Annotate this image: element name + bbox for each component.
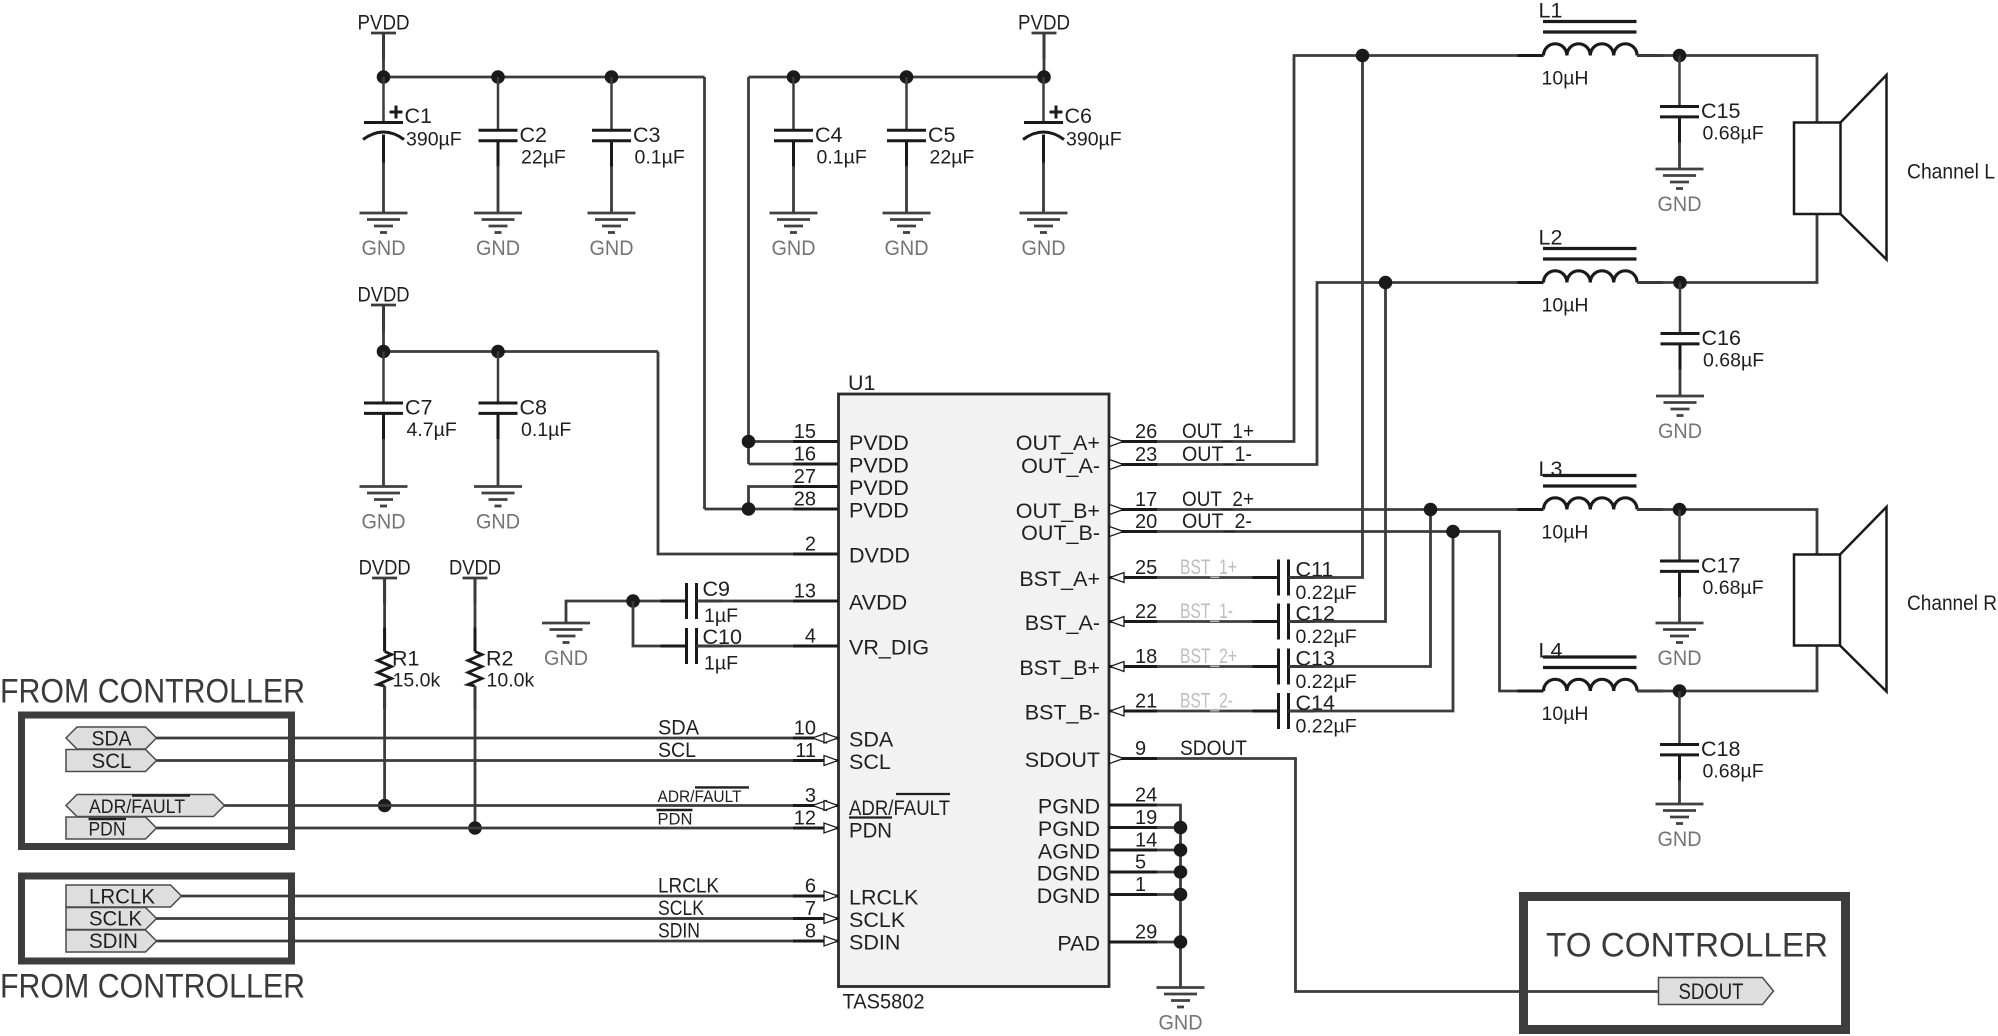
svg-text:1µF: 1µF [704,653,738,675]
svg-text:L4: L4 [1539,639,1563,663]
svg-text:C6: C6 [1065,104,1093,128]
arrow pin7 SCLK input [824,914,838,924]
svg-text:21: 21 [1135,691,1157,713]
wire node down to C10 [633,601,687,646]
wire PVDD bus (C4-C6) [749,76,1045,79]
svg-text:GND: GND [362,236,406,260]
pin 23 OUT_A- (right) [1109,463,1157,466]
ground C8 [474,485,522,488]
svg-text:GND: GND [476,510,520,534]
wire OUT_1+ from pin 26 [1157,56,1544,442]
svg-text:8: 8 [805,921,816,943]
node junction R2/PDN [468,821,482,835]
svg-text:OUT_1-: OUT_1- [1182,442,1252,466]
ground C15 [1656,168,1704,171]
wire OUT_2- from pin 20 [1157,532,1544,692]
svg-text:C1: C1 [405,104,432,128]
pin 11 SCL (left) [793,759,838,762]
arrow BST input pin [1110,573,1124,583]
arrow BST input pin [1110,706,1124,716]
inductor L3 10uH [1544,498,1638,510]
svg-text:BST_A-: BST_A- [1025,611,1100,635]
svg-text:23: 23 [1135,444,1157,466]
svg-text:0.68µF: 0.68µF [1703,123,1764,145]
wire BST_B- pin 21 [1157,710,1279,713]
svg-text:0.68µF: 0.68µF [1703,350,1764,372]
svg-text:GND: GND [885,236,929,260]
svg-text:PAD: PAD [1057,932,1100,956]
wire BST_A- pin 22 [1157,620,1279,623]
svg-text:16: 16 [794,444,816,466]
svg-text:7: 7 [805,898,816,920]
arrow output pin (right side) [1110,505,1124,515]
svg-text:0.1µF: 0.1µF [817,146,867,168]
svg-text:L3: L3 [1539,457,1563,481]
wire C14 to OUT_2- node [1289,532,1454,712]
svg-text:OUT_2+: OUT_2+ [1182,487,1254,511]
resistor R1 15.0k [383,628,386,652]
svg-text:R2: R2 [486,647,513,671]
wire pin 16 PVDD [749,463,839,466]
svg-text:SDIN: SDIN [849,931,900,955]
ground AVDD decoupling [542,622,590,625]
inductor L4 10uH [1544,679,1638,691]
pin 2 DVDD (left) [793,553,838,556]
node junction C1/PVDD [377,70,391,84]
svg-text:L1: L1 [1539,0,1563,23]
arrow pin8 SDIN input [824,936,838,946]
wire gnd pin to bus [1157,871,1181,874]
svg-text:1µF: 1µF [704,605,738,627]
pin 28 PVDD (left) [793,508,838,511]
flag SDOUT output [1659,978,1774,1005]
capacitor C7 4.7uF [382,352,385,404]
pin 13 AVDD (left) [793,600,838,603]
wire gnd pin to bus [1157,826,1181,829]
svg-text:BST_A+: BST_A+ [1019,567,1100,591]
pin 15 PVDD (left) [793,440,838,443]
ground C1 [360,212,408,215]
arrow BST input pin [1110,662,1124,672]
power flag DVDD (R1) [372,577,397,580]
pin 6 LRCLK (left) [793,895,838,898]
svg-text:18: 18 [1135,646,1157,668]
pin 29 PAD (right) [1109,941,1157,944]
pin 16 PVDD (left) [793,463,838,466]
svg-text:GND: GND [362,510,406,534]
pin 5 DGND (right) [1109,871,1157,874]
wire C10 to pin 4 VR_DIG [697,645,839,648]
svg-text:ADR/FAULT: ADR/FAULT [89,797,185,818]
svg-text:LRCLK: LRCLK [89,885,156,909]
svg-text:10µH: 10µH [1542,295,1589,317]
svg-text:SDIN: SDIN [89,929,138,953]
svg-text:390µF: 390µF [406,129,462,151]
arrow pin11 SCL input [824,756,838,766]
node junction pin15 [742,435,756,449]
svg-text:DGND: DGND [1037,884,1100,908]
svg-text:BST_2+: BST_2+ [1180,644,1237,668]
svg-text:BST_1-: BST_1- [1180,599,1233,623]
ground C16 [1656,395,1704,398]
ground C6 [1020,212,1068,215]
ground C4 [770,212,818,215]
capacitor C1 390uF polarized [382,77,385,123]
pin 27 PVDD (left) [793,485,838,488]
capacitor C15 0.68uF [1678,56,1681,107]
pin 4 VR_DIG (left) [793,645,838,648]
pin 17 OUT_B+ (right) [1109,508,1157,511]
svg-text:PGND: PGND [1038,817,1100,841]
svg-text:DVDD: DVDD [359,556,411,580]
svg-text:17: 17 [1135,489,1157,511]
wire C11 to OUT_1+ node [1289,56,1363,578]
wire gnd pin to bus [1157,849,1181,852]
wire SDOUT from pin 9 [1157,759,1659,992]
capacitor C2 22uF [497,77,500,130]
wire C12 to OUT_1- node [1289,283,1386,622]
node junction pin28 [742,502,756,516]
svg-text:4.7µF: 4.7µF [407,419,457,441]
node junction C17 [1673,503,1687,517]
svg-text:GND: GND [1159,1011,1203,1035]
pin 24 PGND (right) [1109,804,1157,807]
svg-text:ADR/FAULT: ADR/FAULT [658,788,742,806]
capacitor C5 22uF [905,77,908,130]
svg-text:PVDD: PVDD [849,499,909,523]
svg-text:C18: C18 [1701,737,1740,761]
capacitor C4 0.1uF [792,77,795,130]
svg-text:0.68µF: 0.68µF [1703,761,1764,783]
wire DVDD to R2 [474,578,477,652]
wire DVDD to pin 2 [658,352,838,555]
pin 21 BST_B- (right) [1109,710,1157,713]
svg-text:9: 9 [1135,738,1146,760]
svg-text:0.22µF: 0.22µF [1296,626,1357,648]
ground C2 [474,212,522,215]
svg-text:BST_1+: BST_1+ [1180,555,1237,579]
svg-text:PDN: PDN [849,819,892,843]
svg-text:LRCLK: LRCLK [849,886,919,910]
wire BST_A+ pin 25 [1157,576,1279,579]
svg-text:PVDD: PVDD [849,431,909,455]
svg-text:22µF: 22µF [521,146,566,168]
ground C7 [360,485,408,488]
wire R2 to PDN net [474,686,477,828]
svg-text:TO CONTROLLER: TO CONTROLLER [1546,927,1828,965]
svg-text:OUT_B+: OUT_B+ [1016,499,1100,523]
svg-text:C15: C15 [1701,99,1740,123]
svg-text:15.0k: 15.0k [393,670,441,692]
svg-text:SCLK: SCLK [849,908,906,932]
node junction C7 [377,345,391,359]
power flag DVDD (C7/C8 group) [371,304,396,307]
wire L2 to speaker L bottom [1637,214,1817,283]
svg-text:28: 28 [794,489,816,511]
wire DVDD to R1 [383,578,386,652]
wire SDA to pin 10 [157,737,839,740]
svg-text:DVDD: DVDD [849,544,910,568]
svg-text:GND: GND [1658,646,1702,670]
svg-text:SCL: SCL [658,738,696,762]
pin 3 ADR/FAULT (left) [793,804,838,807]
svg-text:Channel R: Channel R [1907,591,1997,615]
op-amp U1 TAS5802 body [839,394,1110,987]
power flag DVDD (R2) [463,577,488,580]
arrow output pin (right side) [1110,460,1124,470]
wire pin 15 PVDD [749,440,839,443]
arrow BST input pin [1110,617,1124,627]
pin 1 DGND (right) [1109,893,1157,896]
arrow pin6 LRCLK input [824,891,838,901]
svg-text:FROM CONTROLLER: FROM CONTROLLER [0,673,305,711]
svg-text:GND: GND [1658,827,1702,851]
svg-text:25: 25 [1135,557,1157,579]
ground C3 [588,212,636,215]
node junction gnd bus [1174,865,1188,879]
ground IC [1157,986,1205,989]
svg-text:AVDD: AVDD [849,591,907,615]
capacitor C10 1uF [661,645,687,648]
svg-text:1: 1 [1135,874,1146,896]
node junction R1/ADR [378,799,392,813]
svg-text:15: 15 [794,421,816,443]
wire SCL to pin 11 [157,759,839,762]
svg-text:6: 6 [805,876,816,898]
pin 7 SCLK (left) [793,917,838,920]
svg-text:SDA: SDA [849,728,894,752]
svg-text:PGND: PGND [1038,795,1100,819]
svg-text:29: 29 [1135,922,1157,944]
svg-text:DGND: DGND [1037,862,1100,886]
wire PDN to pin 12 [157,827,839,830]
svg-text:22: 22 [1135,601,1157,623]
svg-text:FROM CONTROLLER: FROM CONTROLLER [0,968,305,1006]
power flag PVDD (right group) [1032,32,1057,35]
wire OUT_1- from pin 23 [1157,283,1544,465]
wire ADR/FAULT to pin 3 [225,804,839,807]
svg-text:C7: C7 [405,396,432,420]
svg-text:C2: C2 [520,123,547,147]
svg-text:OUT_2-: OUT_2- [1182,509,1252,533]
svg-text:OUT_A+: OUT_A+ [1016,431,1100,455]
wire PAD pin 29 to gnd bus [1157,941,1181,944]
pin 14 AGND (right) [1109,849,1157,852]
pin 22 BST_A- (right) [1109,620,1157,623]
svg-text:BST_B+: BST_B+ [1019,656,1100,680]
flag ADR/FAULT bidirectional [66,795,225,817]
svg-text:C8: C8 [520,396,548,420]
svg-text:GND: GND [1658,192,1702,216]
arrow pin10 SDA bidirectional [813,733,827,743]
node junction C5 [900,70,914,84]
node junction C3 [605,70,619,84]
svg-text:OUT_A-: OUT_A- [1021,454,1100,478]
svg-text:10µH: 10µH [1542,68,1589,90]
svg-text:C4: C4 [815,123,843,147]
arrow output pin (right side) [1110,527,1124,537]
capacitor C18 0.68uF [1678,691,1681,745]
svg-text:14: 14 [1135,830,1157,852]
flag SDIN input [66,930,157,952]
box from-controller I2C [22,715,292,847]
node junction C4 [787,70,801,84]
node junction gnd bus [1174,888,1188,902]
svg-text:C3: C3 [633,123,661,147]
svg-text:LRCLK: LRCLK [658,874,720,898]
node junction C6/PVDD [1037,70,1051,84]
wire DVDD bus [384,350,659,353]
svg-text:SCLK: SCLK [658,896,705,920]
node junction C14 riser [1446,525,1460,539]
capacitor C11 0.22uF [1253,576,1279,579]
box to-controller [1524,897,1846,1030]
svg-text:AGND: AGND [1038,840,1100,864]
svg-text:PDN: PDN [658,811,693,829]
svg-text:27: 27 [794,466,816,488]
svg-text:DVDD: DVDD [358,283,410,307]
speaker Channel R [1794,555,1840,646]
svg-text:GND: GND [772,236,816,260]
arrow pin3 ADR/FAULT bidirectional [813,801,827,811]
svg-text:0.1µF: 0.1µF [521,419,571,441]
svg-text:OUT_B-: OUT_B- [1021,521,1100,545]
pin 18 BST_B+ (right) [1109,665,1157,668]
wire PVDD bus down to pin 28 [703,77,706,509]
svg-text:PVDD: PVDD [849,454,909,478]
node junction C11 riser [1356,49,1370,63]
wire L3 to speaker R top [1637,510,1817,555]
pin 25 BST_A+ (right) [1109,576,1157,579]
wire OUT_2+ from pin 17 [1157,508,1544,511]
node junction C9/C10 [626,594,640,608]
pin 9 SDOUT (right) [1109,757,1157,760]
pin 19 PGND (right) [1109,826,1157,829]
wire PVDD bus down to pins 15/16 [747,77,750,464]
wire LRCLK to pin 6 [182,895,839,898]
node junction C18 [1673,684,1687,698]
node junction C15 [1673,49,1687,63]
svg-text:L2: L2 [1539,226,1563,250]
wire pin 28 PVDD [705,508,839,511]
svg-text:SDA: SDA [92,727,133,751]
node junction C2 [491,70,505,84]
svg-text:2: 2 [805,534,816,556]
wire gnd pin to bus [1157,893,1181,896]
ground C18 [1656,803,1704,806]
svg-text:BST_2-: BST_2- [1180,689,1233,713]
flag LRCLK input [66,885,182,907]
node junction gnd bus [1174,843,1188,857]
capacitor C12 0.22uF [1253,620,1279,623]
power flag PVDD (net PVDD, left group) [371,32,396,35]
wire gnd to C9/C10 node [566,601,687,623]
svg-text:R1: R1 [392,647,419,671]
svg-text:4: 4 [805,626,816,648]
wire PVDD flag to bus [382,33,385,77]
node junction C12 riser [1379,276,1393,290]
svg-text:390µF: 390µF [1066,129,1122,151]
arrow output pin (right side) [1110,754,1124,764]
inductor L1 10uH [1544,44,1638,56]
svg-text:0.22µF: 0.22µF [1296,716,1357,738]
svg-text:PVDD: PVDD [849,476,909,500]
svg-text:SDA: SDA [658,716,700,740]
svg-text:SDOUT: SDOUT [1679,979,1744,1004]
svg-text:PVDD: PVDD [1018,11,1070,35]
svg-text:C17: C17 [1701,554,1740,578]
svg-text:TAS5802: TAS5802 [843,990,925,1014]
ground C17 [1656,622,1704,625]
svg-text:C5: C5 [928,123,956,147]
capacitor C6 390uF polarized [1042,77,1045,123]
capacitor C3 0.1uF [610,77,613,130]
box from-controller I2S [22,876,292,961]
svg-text:GND: GND [590,236,634,260]
svg-text:BST_B-: BST_B- [1025,701,1100,725]
wire DVDD flag to bus [382,305,385,352]
svg-text:24: 24 [1135,785,1157,807]
node junction C8 [491,345,505,359]
svg-text:SDOUT: SDOUT [1025,748,1100,772]
svg-text:10µH: 10µH [1542,522,1589,544]
node junction C13 riser [1424,503,1438,517]
arrow output pin (right side) [1110,437,1124,447]
wire C9 to pin 13 AVDD [697,600,839,603]
wire R1 to ADR/FAULT net [383,686,386,806]
wire C13 to OUT_2+ node [1289,510,1431,667]
pin 12 PDN (left) [793,827,838,830]
svg-text:10µH: 10µH [1542,703,1589,725]
svg-text:SDIN: SDIN [658,919,700,943]
capacitor C13 0.22uF [1253,665,1279,668]
pin 26 OUT_A+ (right) [1109,440,1157,443]
svg-text:0.22µF: 0.22µF [1296,671,1357,693]
svg-text:Channel L: Channel L [1907,160,1995,184]
wire PVDD flag to bus [1043,33,1046,77]
svg-text:SCL: SCL [92,749,132,773]
svg-text:SDOUT: SDOUT [1180,736,1247,760]
pin 10 SDA (left) [793,737,838,740]
wire SCLK to pin 7 [157,917,839,920]
node junction C16 [1673,276,1687,290]
svg-text:GND: GND [1658,419,1702,443]
node junction PAD [1174,935,1188,949]
svg-text:0.68µF: 0.68µF [1703,577,1764,599]
wire L1 to speaker L top [1637,56,1817,123]
svg-text:VR_DIG: VR_DIG [849,636,929,660]
wire L4 to speaker R bottom [1637,646,1817,692]
wire PGND pin 24 to gnd bus [1157,805,1181,988]
capacitor C17 0.68uF [1678,510,1681,562]
wire PVDD bus (C1-C3) [384,76,705,79]
capacitor C14 0.22uF [1253,710,1279,713]
svg-text:11: 11 [795,740,816,762]
flag SCLK input [66,908,157,930]
svg-text:26: 26 [1135,421,1157,443]
capacitor C8 0.1uF [497,352,500,404]
wire BST_B+ pin 18 [1157,665,1279,668]
svg-text:OUT_1+: OUT_1+ [1182,419,1254,443]
flag SDA bidirectional [66,727,157,749]
svg-text:22µF: 22µF [930,146,975,168]
svg-text:19: 19 [1135,807,1157,829]
node junction gnd bus [1174,821,1188,835]
wire pin 27 PVDD [749,487,839,510]
svg-text:U1: U1 [848,371,875,395]
svg-text:10.0k: 10.0k [487,670,535,692]
svg-text:13: 13 [794,581,816,603]
